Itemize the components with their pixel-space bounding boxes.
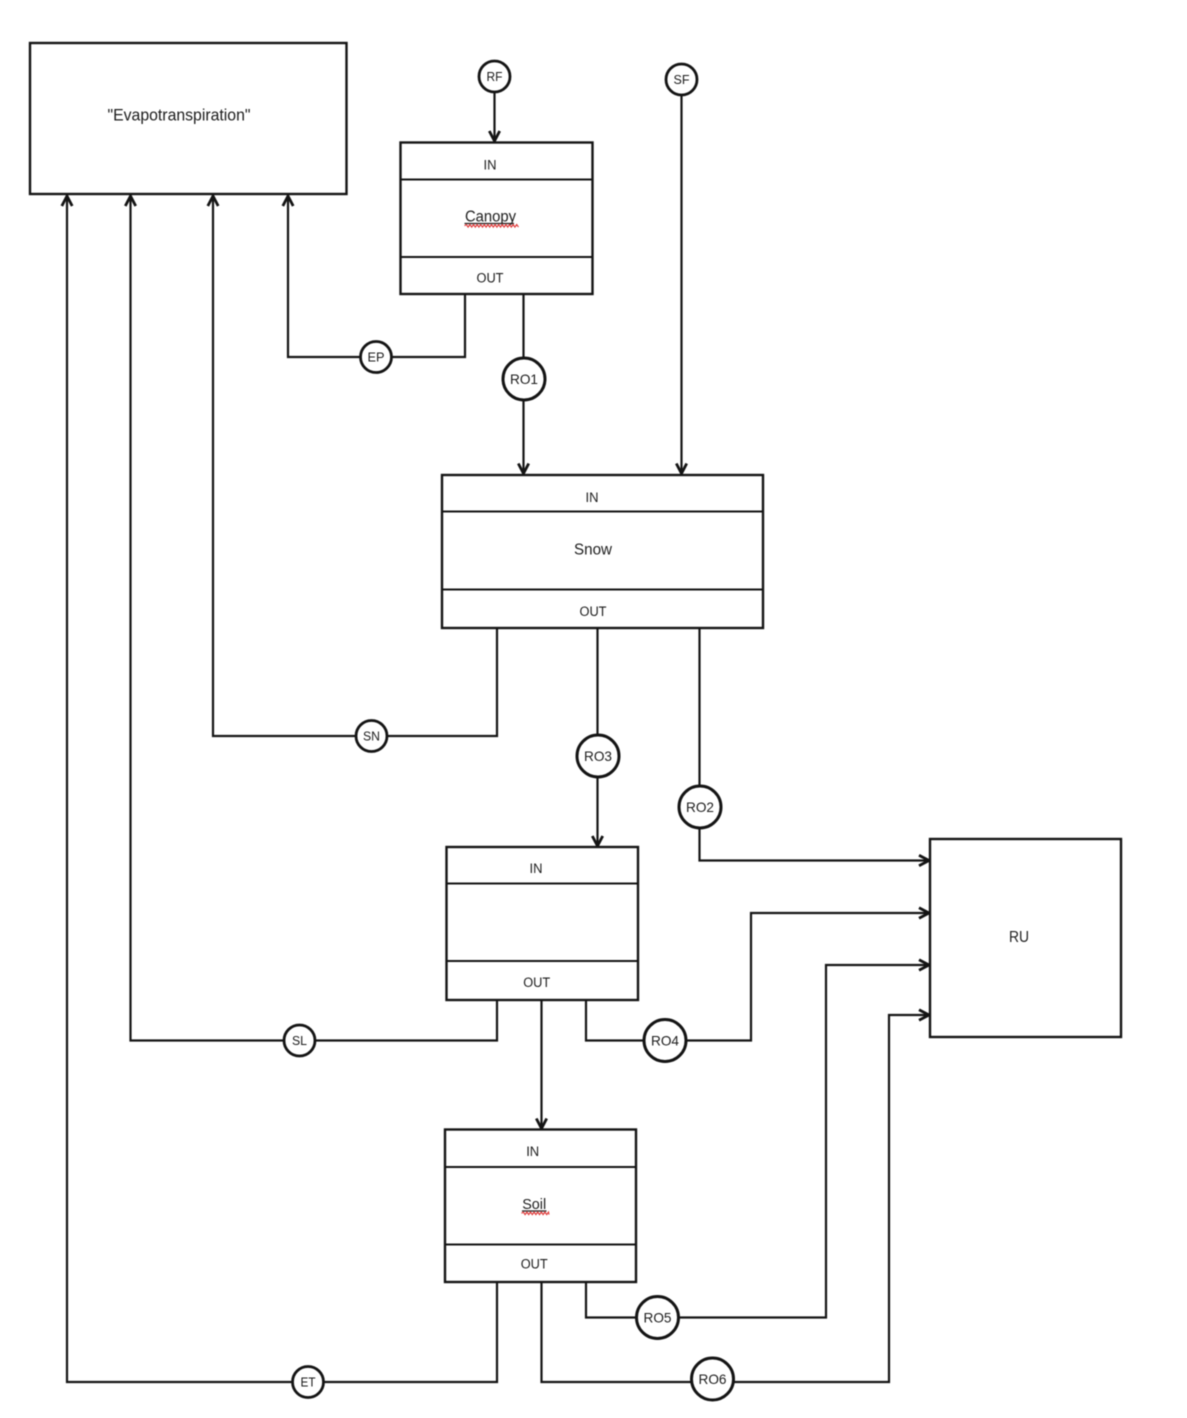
wire middle box OUT through RO4 to RU <box>586 913 929 1041</box>
svg-text:RU: RU <box>1009 929 1029 946</box>
svg-text:OUT: OUT <box>521 1257 548 1272</box>
svg-text:RO4: RO4 <box>651 1033 679 1049</box>
wire middle box OUT through SL to Evapotranspiration <box>131 197 498 1041</box>
svg-text:RO3: RO3 <box>584 748 612 764</box>
wire Canopy OUT through EP to Evapotranspiration <box>288 197 465 357</box>
svg-text:OUT: OUT <box>477 271 504 286</box>
box Evapotranspiration <box>30 43 347 194</box>
node RO4 <box>644 1020 686 1062</box>
box Snow <box>442 475 763 628</box>
wire Canopy OUT through RO1 to Snow IN <box>522 294 524 473</box>
wire Soil OUT through ET to Evapotranspiration <box>67 197 497 1382</box>
node SN <box>356 721 387 752</box>
wire Soil OUT through RO6 to RU <box>542 1015 929 1382</box>
svg-text:IN: IN <box>530 861 543 876</box>
svg-text:IN: IN <box>526 1144 539 1159</box>
box middle (unnamed) <box>447 847 639 1000</box>
node RO1 <box>503 358 545 400</box>
svg-text:"Evapotranspiration": "Evapotranspiration" <box>108 107 251 125</box>
node RO5 <box>637 1297 679 1339</box>
node RO6 <box>692 1358 734 1400</box>
box RU <box>930 839 1121 1037</box>
node RO3 <box>577 735 619 777</box>
wire Soil OUT through RO5 to RU <box>586 965 929 1318</box>
svg-text:Snow: Snow <box>574 542 612 559</box>
svg-text:RO1: RO1 <box>510 371 538 387</box>
svg-text:SL: SL <box>292 1033 307 1048</box>
svg-text:ET: ET <box>301 1375 316 1390</box>
svg-text:RF: RF <box>487 69 503 84</box>
svg-text:OUT: OUT <box>580 604 607 619</box>
box Soil <box>445 1130 636 1283</box>
svg-text:RO2: RO2 <box>686 799 714 815</box>
svg-text:RO5: RO5 <box>644 1310 672 1326</box>
node SL <box>284 1025 315 1056</box>
box Canopy <box>401 143 593 295</box>
svg-text:RO6: RO6 <box>699 1371 727 1387</box>
svg-text:IN: IN <box>586 490 599 505</box>
wire RF to Canopy IN <box>493 92 495 140</box>
node SF <box>666 64 697 95</box>
wire middle box OUT to Soil IN <box>540 1000 542 1128</box>
wire Snow OUT through RO2 to RU <box>700 628 929 861</box>
svg-text:SN: SN <box>363 729 380 744</box>
svg-text:OUT: OUT <box>523 975 550 990</box>
node EP <box>361 342 392 373</box>
node RO2 <box>679 786 721 828</box>
wire Snow OUT through RO3 to middle box IN <box>596 628 598 846</box>
svg-text:SF: SF <box>674 72 690 87</box>
node ET <box>293 1367 324 1398</box>
wire SF to Snow IN <box>680 95 682 473</box>
node RF <box>479 61 510 92</box>
svg-text:EP: EP <box>368 350 385 365</box>
svg-text:IN: IN <box>484 158 497 173</box>
wire Snow OUT through SN to Evapotranspiration <box>213 197 497 736</box>
